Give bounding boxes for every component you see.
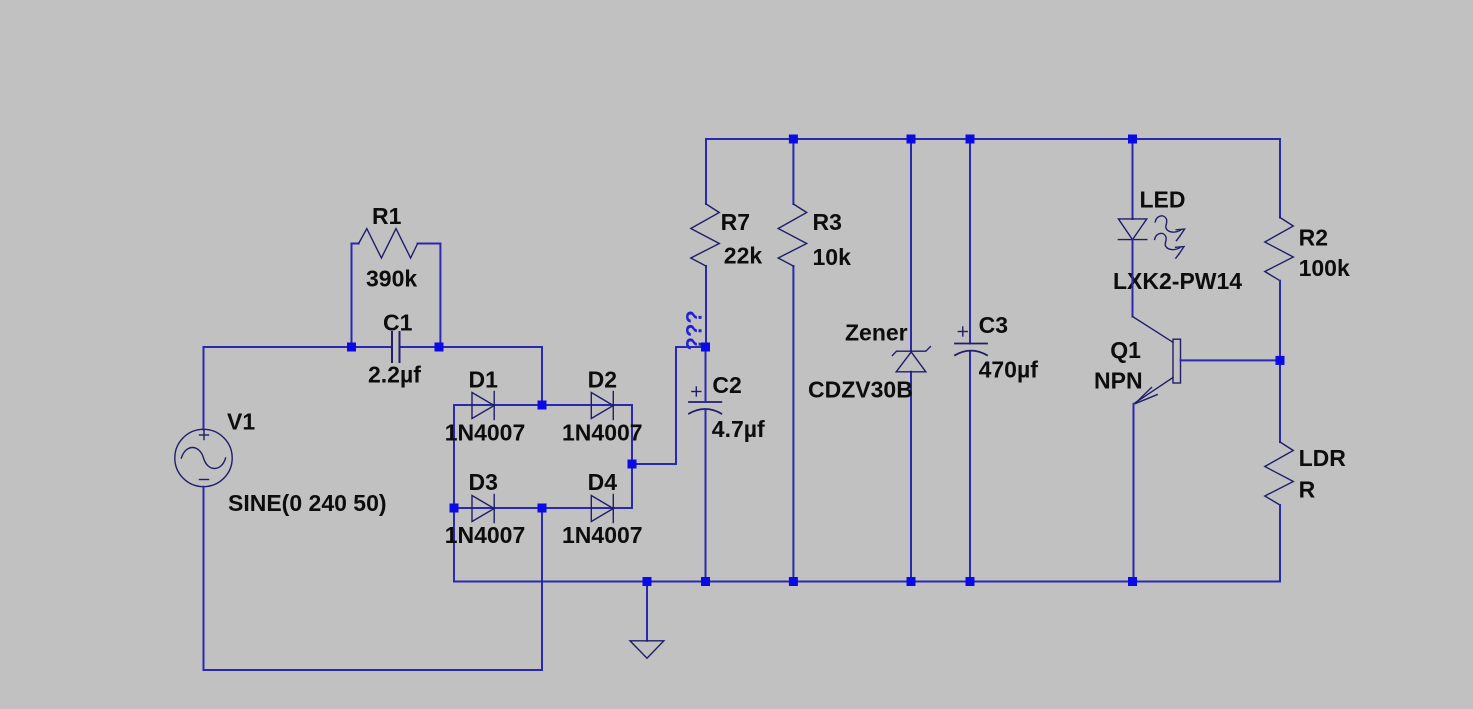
wire: top rail (706, 138, 1280, 140)
svg-text:10k: 10k (813, 244, 852, 270)
node: base junction (1276, 356, 1285, 365)
svg-text:LDR: LDR (1299, 445, 1347, 471)
svg-text:C3: C3 (979, 312, 1008, 338)
svg-text:C2: C2 (712, 372, 741, 398)
svg-text:SINE(0 240 50): SINE(0 240 50) (228, 490, 387, 516)
svg-text:D2: D2 (588, 367, 617, 393)
svg-text:1N4007: 1N4007 (562, 522, 643, 548)
wire: LED branch top lead (1132, 139, 1134, 219)
node: C3 bottom rail (966, 577, 975, 586)
wire: bridge right side (D2/D4 cathodes) (631, 405, 633, 508)
node: top rail R3 (789, 135, 798, 144)
wire: V1 bottom loop to bridge lower input (204, 487, 543, 670)
wire: bridge top row (454, 404, 632, 406)
wire: C1 right to bridge top input (400, 347, 543, 405)
node: C1 right (435, 343, 444, 352)
wire: bridge output to C2 node (632, 347, 706, 464)
svg-text:100k: 100k (1299, 255, 1350, 281)
node: zener bottom rail (907, 577, 916, 586)
svg-text:R2: R2 (1299, 225, 1328, 251)
capacitor C1 (392, 332, 400, 362)
svg-text:1N4007: 1N4007 (445, 522, 526, 548)
diode D3 (472, 495, 494, 523)
resistor LDR (1265, 442, 1294, 505)
node: top rail C3 (966, 135, 975, 144)
wire: right rail bottom lead (1279, 505, 1281, 582)
ground (630, 641, 664, 658)
svg-text:NPN: NPN (1094, 368, 1143, 394)
transistor Q1 (1133, 317, 1181, 404)
junction nodes (347, 135, 1285, 587)
voltage source V1 (175, 429, 232, 486)
svg-text:22k: 22k (724, 243, 763, 269)
svg-text:Q1: Q1 (1110, 337, 1141, 363)
resistor R2 (1265, 218, 1294, 281)
svg-text:R7: R7 (721, 209, 750, 235)
wire: Q1 base to right rail (1181, 359, 1281, 361)
wire: right rail middle (1279, 281, 1281, 442)
wire: C3 leads (969, 139, 971, 344)
capacitor C3 (955, 344, 987, 356)
svg-text:R3: R3 (813, 209, 842, 235)
wire: right rail top lead (1279, 139, 1281, 218)
svg-text:D4: D4 (588, 469, 618, 495)
wire: R3 leads (792, 139, 794, 204)
diode D4 (591, 495, 613, 523)
node: bridge left (450, 504, 459, 513)
node: C2 bottom rail (701, 577, 710, 586)
node: Q1 emitter rail (1128, 577, 1137, 586)
node: bridge top input (538, 401, 547, 410)
wire: ground stem (646, 582, 648, 641)
wire: V1 top to C1 node (204, 347, 393, 430)
capacitor C2 (689, 402, 721, 414)
node: R3 bottom rail (789, 577, 798, 586)
svg-text:D1: D1 (469, 367, 499, 393)
svg-text:R1: R1 (372, 203, 402, 229)
svg-text:D3: D3 (469, 469, 498, 495)
wire: R1 left lead (352, 244, 359, 348)
wire: R1 right lead (418, 244, 441, 348)
svg-text:V1: V1 (227, 409, 255, 435)
svg-text:CDZV30B: CDZV30B (808, 377, 913, 403)
node: ground rail (643, 577, 652, 586)
svg-text:1N4007: 1N4007 (445, 420, 526, 446)
resistor R7 (691, 204, 720, 266)
wire: bottom rail (454, 581, 1280, 583)
wire: R7 leads (705, 139, 707, 204)
svg-text:2.2µf: 2.2µf (368, 362, 421, 388)
svg-text:C1: C1 (383, 310, 413, 336)
node: top rail zener (907, 135, 916, 144)
node: bridge output (628, 460, 637, 469)
svg-text:1N4007: 1N4007 (562, 420, 643, 446)
svg-text:LED: LED (1140, 187, 1186, 213)
node: bridge bottom input (538, 504, 547, 513)
diode D1 (472, 392, 494, 420)
svg-text:390k: 390k (366, 266, 417, 292)
svg-text:4.7µf: 4.7µf (712, 416, 765, 442)
wire: Q1 emitter down (1133, 404, 1135, 582)
svg-text:Zener: Zener (845, 320, 908, 346)
wire: bridge left side down (453, 405, 455, 582)
svg-text:R: R (1299, 477, 1316, 503)
diode D2 (591, 392, 613, 420)
svg-text:470µf: 470µf (979, 357, 1039, 383)
resistor R3 (778, 204, 807, 266)
node: C2 top (701, 343, 710, 352)
resistor R1 (359, 229, 418, 258)
node: top rail LED (1128, 135, 1137, 144)
node: C1 left (347, 343, 356, 352)
wire: C2 leads (705, 347, 707, 402)
wire: zener branch (910, 139, 912, 352)
LED (1118, 216, 1184, 258)
wire: LED to Q1 collector (1132, 240, 1134, 317)
wire: bridge bottom row (454, 507, 632, 509)
zener diode (892, 347, 930, 372)
